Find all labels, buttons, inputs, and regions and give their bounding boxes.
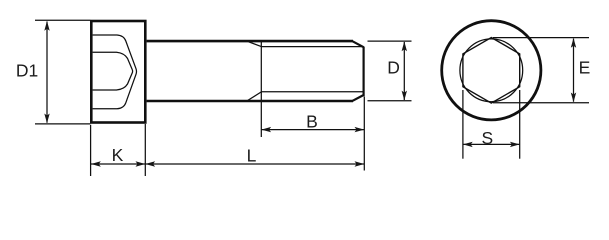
dimension D1 bottom extension line [35,123,90,125]
dimension E bottom extension line [493,102,589,104]
tip end line [363,47,365,97]
dimension D line [403,42,405,100]
dimension K/L shared extension line [144,124,146,176]
svg-text:D: D [387,58,400,78]
arrowhead S right [510,142,520,147]
arrowhead L left [145,161,155,166]
hex socket side view outer contour [93,35,137,109]
dimension K line [91,163,145,165]
arrowhead E up [571,38,576,48]
svg-text:B: B [306,111,318,131]
svg-text:K: K [112,145,124,165]
svg-text:L: L [247,146,257,166]
arrowhead D up [402,41,407,51]
dimension D top extension line [368,40,412,42]
thread runout chamfer bottom [248,92,261,101]
arrowhead D1 up [44,21,49,31]
head outline [91,21,145,123]
thread minor diameter top line [261,46,363,48]
dimension K left extension line [90,125,92,176]
end view hex socket [463,38,520,104]
dimension S line [463,143,520,145]
thread minor diameter bottom line [261,91,363,93]
end view outer circle [442,21,541,120]
thread runout line + B left extension line [260,42,262,138]
shank top edge [147,40,353,43]
tip chamfer top [353,41,364,47]
arrowhead K right [136,161,146,166]
dimension E line [573,39,575,102]
tip chamfer bottom [353,95,364,101]
dimension D bottom extension line [368,100,412,102]
dimension L/B right extension line [363,97,365,171]
arrowhead E down [571,93,576,103]
thread runout chamfer top [249,42,262,47]
end view socket chamfer circle [460,39,523,102]
svg-text:E: E [579,58,591,78]
arrowhead S left [463,142,473,147]
svg-text:D1: D1 [16,61,38,81]
svg-text:S: S [481,128,493,148]
dimension D1 line [46,22,48,123]
dimension E top extension line [493,37,589,39]
arrowhead K left [91,161,101,166]
dimension S left extension line [462,90,464,159]
arrowhead B left [261,127,271,132]
dimension L line [145,163,364,165]
arrowhead B right [355,127,365,132]
arrowhead L right [355,161,365,166]
hex socket side view inner cone [93,52,133,90]
dimension D1 top extension line [35,19,90,21]
dimension B line [261,129,364,131]
dimension S right extension line [519,90,521,159]
shank bottom edge [147,100,353,103]
arrowhead D down [402,91,407,101]
arrowhead D1 down [44,114,49,124]
